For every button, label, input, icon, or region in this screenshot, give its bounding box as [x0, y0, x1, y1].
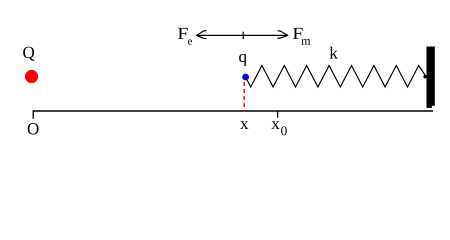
subscript e of F_e [188, 40, 192, 45]
axis line [33, 110, 433, 112]
subscript 0 of x_0 [281, 126, 287, 135]
center tick on force arrow [242, 32, 244, 40]
spring k (zigzag) [246, 66, 427, 88]
label Q (fixed charge) [23, 47, 34, 61]
left arrowhead (F_e) [197, 31, 207, 39]
spring-wall attachment dot [423, 75, 427, 79]
label O (origin) [28, 123, 39, 134]
force arrow line (double headed) [197, 34, 288, 36]
subscript m of F_m [301, 39, 310, 45]
origin tick [32, 111, 34, 119]
wall (fixed support) [427, 47, 435, 108]
charge q (blue dot) [242, 74, 249, 81]
dashed red line at position x [243, 82, 245, 112]
charge Q (red dot) [25, 70, 38, 83]
right arrowhead (F_m) [278, 31, 288, 39]
label q (charge on spring) [239, 54, 247, 66]
label F_e (electric force) [178, 28, 188, 39]
label F_m (spring force) [293, 28, 303, 39]
label k (spring constant) [330, 47, 338, 59]
tick at x_0 [277, 111, 279, 118]
label x_0 (equilibrium position) [271, 121, 279, 129]
label x (position of q) [240, 121, 248, 129]
